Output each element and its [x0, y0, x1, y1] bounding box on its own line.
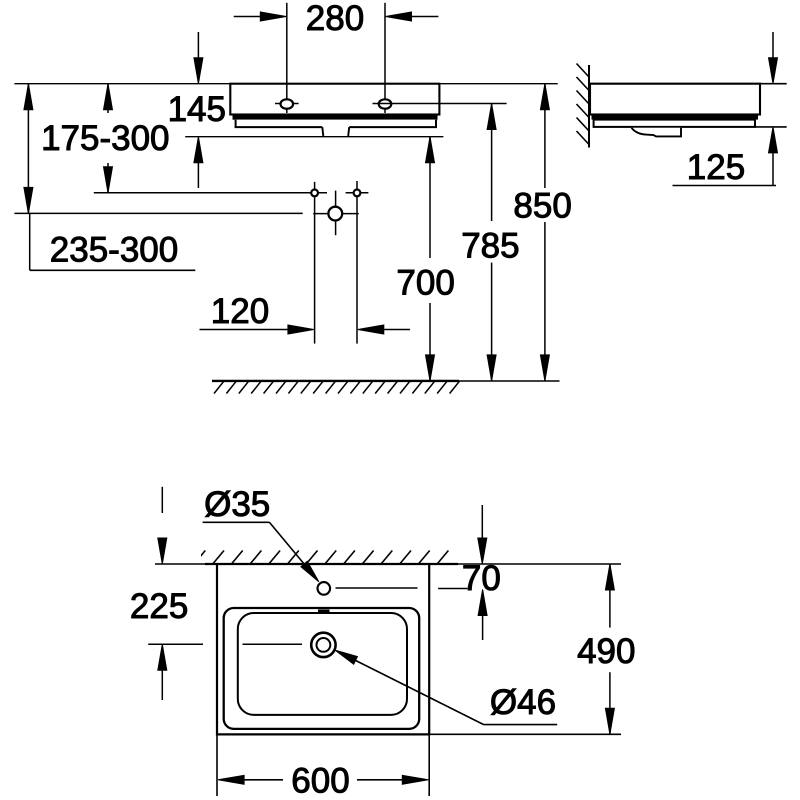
- svg-text:225: 225: [130, 587, 188, 626]
- svg-text:Ø46: Ø46: [490, 683, 556, 722]
- svg-text:125: 125: [687, 148, 745, 187]
- svg-text:235-300: 235-300: [50, 231, 178, 270]
- svg-text:785: 785: [461, 227, 519, 266]
- svg-text:120: 120: [211, 292, 269, 331]
- svg-text:175-300: 175-300: [41, 119, 169, 158]
- svg-text:700: 700: [396, 264, 454, 303]
- svg-text:Ø35: Ø35: [204, 485, 270, 524]
- svg-text:490: 490: [577, 632, 635, 671]
- svg-text:850: 850: [513, 186, 571, 225]
- svg-text:145: 145: [168, 90, 226, 129]
- svg-text:600: 600: [291, 761, 349, 800]
- svg-text:280: 280: [306, 0, 364, 38]
- svg-text:70: 70: [462, 559, 501, 598]
